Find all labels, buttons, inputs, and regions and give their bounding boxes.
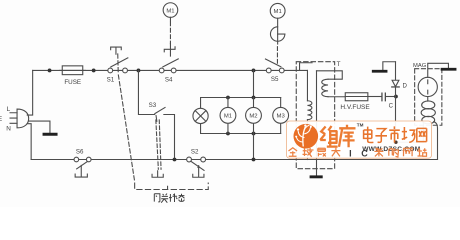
node fuse right: [92, 69, 96, 73]
wire plug N riser: [27, 124, 31, 160]
svg-text:S5: S5: [271, 76, 279, 83]
svg-text:S2: S2: [191, 149, 199, 156]
svg-text:H.V.FUSE: H.V.FUSE: [340, 104, 370, 111]
node bottom rail M2: [252, 158, 256, 162]
linkage dashed S1: [118, 54, 135, 182]
magnetron MAG box: [415, 69, 442, 126]
svg-text:FUSE: FUSE: [64, 79, 81, 86]
node S3 to rail: [173, 158, 177, 162]
watermark text DianZiShiChangWang: [364, 127, 374, 143]
wire M2 column to bottom rail: [253, 134, 255, 160]
linkage dashed S3 pair: [156, 120, 161, 169]
motor M1 left: [163, 3, 178, 21]
svg-text:C: C: [361, 148, 368, 158]
ground diode top: [373, 62, 395, 72]
svg-text:E: E: [0, 116, 2, 123]
wire plug L riser: [27, 70, 32, 115]
node cap-diode junction: [394, 95, 398, 99]
switch S5: [265, 59, 284, 73]
cam symbol above S1: [111, 47, 122, 54]
motor M3: [273, 98, 289, 134]
svg-text:N: N: [6, 126, 11, 133]
switch S4: [159, 59, 178, 73]
transformer T box: [296, 62, 334, 169]
wire lamp bank bottom bus: [201, 133, 281, 135]
plug P1: [10, 109, 29, 128]
wire lamp bank top bus: [201, 97, 281, 99]
node S1-S3 junction: [137, 69, 141, 73]
svg-text:T: T: [337, 61, 341, 68]
cam switch symbol: [270, 18, 284, 44]
wire top rail L: [33, 69, 308, 71]
ground magnetron top: [428, 63, 455, 77]
motor M2: [246, 98, 262, 134]
transformer primary winding: [307, 70, 312, 159]
magnetron anode circle: [418, 77, 437, 96]
svg-text:C: C: [389, 103, 394, 110]
switch S6: [74, 157, 91, 169]
node filament junction: [394, 140, 398, 144]
linkage dashed cam-S5: [276, 47, 278, 64]
svg-text:MAG: MAG: [413, 63, 427, 69]
svg-text:M1: M1: [166, 8, 174, 14]
watermark badge logo: [294, 124, 319, 149]
transformer HV secondary winding: [317, 71, 346, 97]
svg-text:M1: M1: [224, 114, 232, 120]
node bus dots: [226, 96, 255, 136]
svg-text:M2: M2: [249, 114, 257, 120]
svg-text:S1: S1: [107, 76, 115, 83]
svg-text:D: D: [402, 82, 407, 89]
svg-text:L: L: [7, 106, 11, 113]
linkage dashed M1-thermal: [169, 22, 171, 44]
wire lamp-bank feed: [253, 70, 255, 97]
capacitor C: [382, 93, 394, 101]
node top rail to lamp bank: [252, 69, 256, 73]
watermark panel: [287, 121, 432, 158]
svg-text:M3: M3: [277, 114, 286, 120]
node fuse left: [48, 69, 52, 73]
svg-text:S6: S6: [76, 149, 84, 156]
fuse H.V.FUSE: [345, 93, 381, 101]
actuator S2: [193, 165, 204, 177]
wire primary top staple: [300, 63, 313, 71]
door linkage bracket: [135, 183, 209, 189]
magnetron filament: [421, 97, 437, 160]
watermark text WeiKu big: [320, 126, 337, 147]
wire S3 branch down: [138, 70, 174, 159]
motor M1 right: [270, 3, 285, 18]
node filament junction visible through watermark: [394, 141, 397, 144]
diode D: [392, 62, 399, 97]
actuator S6: [75, 165, 87, 177]
wire cap junction to filament: [396, 97, 424, 143]
thermal cutout above S4: [164, 43, 175, 56]
wire bottom rail N: [31, 159, 437, 161]
actuator S3: [152, 171, 163, 177]
switch S3: [155, 107, 165, 121]
svg-text:S3: S3: [149, 102, 157, 109]
ground plug earth: [28, 121, 56, 134]
svg-text:S4: S4: [165, 77, 173, 84]
svg-text:M1: M1: [274, 9, 282, 15]
ground transformer core: [311, 71, 321, 177]
switch S1: [108, 58, 128, 73]
lamp EL: [193, 98, 208, 134]
svg-text:I: I: [349, 148, 352, 158]
fuse FUSE: [59, 66, 85, 75]
label door-closed-state: [154, 194, 160, 202]
svg-text:TM: TM: [357, 123, 364, 128]
motor M1 bank: [220, 98, 236, 134]
switch S2: [187, 157, 206, 170]
